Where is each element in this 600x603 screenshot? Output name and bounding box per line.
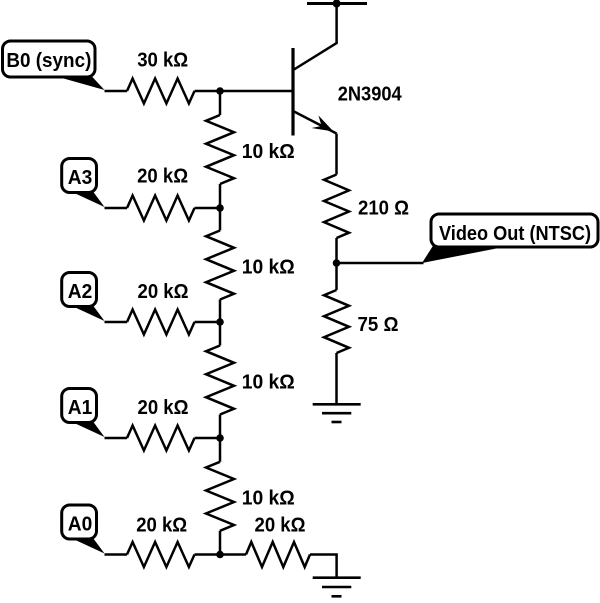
svg-text:20 kΩ: 20 kΩ — [255, 515, 306, 537]
node A3 junction dot — [216, 204, 224, 212]
wire resistor to ladder — [195, 437, 221, 440]
net flag B0 — [3, 41, 105, 90]
node B0 junction dot — [216, 87, 224, 95]
net flag A3 — [62, 159, 105, 208]
svg-text:20 kΩ: 20 kΩ — [138, 397, 189, 419]
resistor A2 input — [127, 310, 195, 335]
node A0 junction dot — [216, 551, 224, 559]
ground (bottom) — [313, 578, 361, 597]
wire R210 to output node — [335, 238, 338, 263]
svg-text:A0: A0 — [68, 514, 93, 536]
wire A1 flag to resistor — [105, 437, 128, 440]
svg-text:75 Ω: 75 Ω — [358, 314, 399, 336]
ground (right, under 75 ohm) — [313, 404, 361, 422]
svg-text:10 kΩ: 10 kΩ — [242, 256, 295, 278]
power rail stub (top) — [307, 2, 367, 5]
wire A2 flag to resistor — [105, 321, 128, 324]
transistor Q1 2N3904 — [293, 4, 337, 136]
svg-text:10 kΩ: 10 kΩ — [242, 141, 295, 163]
resistor 75 ohm — [335, 263, 338, 290]
resistor R 10k #3 (ladder) — [219, 322, 222, 346]
wire resistor to base — [195, 90, 292, 93]
svg-text:20 kΩ: 20 kΩ — [137, 165, 188, 187]
resistor R 10k #2 (ladder) — [219, 208, 222, 231]
node A2 junction dot — [216, 318, 224, 326]
wire B0 flag to resistor — [105, 90, 128, 93]
wire A0 flag to resistor — [105, 553, 128, 556]
node: video output junction — [333, 259, 341, 267]
resistor A3 input — [127, 196, 195, 221]
svg-text:Video Out (NTSC): Video Out (NTSC) — [439, 223, 591, 245]
net flag A0 — [62, 505, 105, 554]
wire A0 node to terminator resistor — [220, 553, 246, 556]
svg-text:10 kΩ: 10 kΩ — [242, 488, 295, 510]
svg-text:20 kΩ: 20 kΩ — [136, 515, 187, 537]
wire resistor to ladder — [195, 207, 221, 210]
svg-text:A2: A2 — [68, 281, 93, 303]
wire to bottom ground — [310, 555, 337, 578]
svg-text:20 kΩ: 20 kΩ — [138, 281, 189, 303]
resistor A0 input — [127, 542, 195, 567]
junction dot on power rail — [333, 0, 341, 8]
net flag A1 — [62, 389, 105, 438]
wire emitter to R 210 — [335, 134, 338, 175]
svg-text:A3: A3 — [68, 167, 93, 189]
svg-text:2N3904: 2N3904 — [338, 83, 403, 105]
net flag Video Out (NTSC) — [422, 214, 598, 263]
svg-text:10 kΩ: 10 kΩ — [242, 371, 295, 393]
svg-text:B0 (sync): B0 (sync) — [6, 50, 91, 72]
resistor 210 ohm — [324, 175, 349, 239]
resistor 20 kohm terminator — [246, 542, 310, 567]
svg-text:210 Ω: 210 Ω — [358, 198, 409, 220]
node A1 junction dot — [216, 434, 224, 442]
wire resistor to ladder — [195, 553, 221, 556]
resistor R 10k #1 (ladder) — [219, 91, 222, 115]
wire resistor to ladder — [195, 321, 221, 324]
wire A3 flag to resistor — [105, 207, 128, 210]
resistor B0 input — [127, 79, 195, 104]
wire output node to flag — [337, 262, 424, 265]
net flag A2 — [62, 273, 105, 322]
svg-text:A1: A1 — [68, 397, 93, 419]
svg-text:30 kΩ: 30 kΩ — [137, 50, 188, 72]
resistor R 10k #4 (ladder) — [219, 438, 222, 462]
wire R75 to ground — [335, 353, 338, 404]
resistor A1 input — [127, 426, 195, 451]
